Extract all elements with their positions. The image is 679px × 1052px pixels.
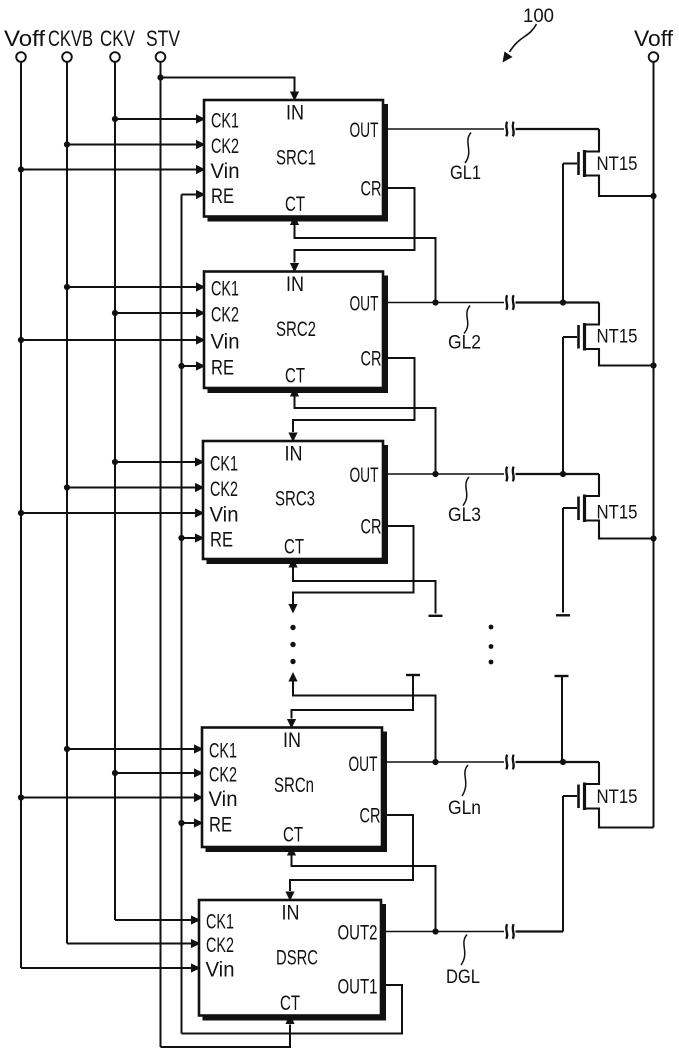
wire RE input of SRC1 — [182, 194, 197, 196]
wire Vin input of SRC2 — [21, 339, 196, 341]
wire CR of SRC1 to IN of SRC2 — [295, 188, 415, 263]
wire CK1 input of SRC1 — [115, 118, 196, 120]
junction NT15 source on Voff rail — [650, 193, 656, 199]
wire GL3 (gate line) from OUT — [384, 473, 504, 475]
svg-text:SRCn: SRCn — [274, 774, 314, 797]
transistor NT15 Q4 channel bar — [583, 783, 586, 811]
junction GL2 tap — [432, 299, 438, 305]
svg-text:CKVB: CKVB — [48, 26, 93, 51]
wire IN of SRCn from CR of omitted stage — [406, 674, 420, 676]
svg-text:CK1: CK1 — [211, 110, 239, 133]
wire CK2 input of SRC2 — [115, 312, 196, 314]
transistor NT15 Q3 drain lead — [584, 474, 599, 496]
junction GL3 and NT15 gate — [560, 471, 566, 477]
svg-text:CR: CR — [361, 516, 382, 539]
junction NT15 source on Voff rail — [650, 535, 656, 541]
svg-text:CK1: CK1 — [209, 740, 237, 763]
transistor NT15 Q3 gate lead — [563, 507, 577, 509]
wire GL2 after break to NT15 drain — [516, 301, 600, 303]
wire CT of SRCn from DGL tap — [292, 855, 436, 932]
svg-text:SRC2: SRC2 — [276, 318, 316, 341]
svg-text:OUT: OUT — [350, 119, 379, 142]
svg-text:CK1: CK1 — [211, 278, 239, 301]
wire gate of NT15 Q4 to DGL — [562, 796, 564, 932]
terminal circle CKVB — [62, 52, 72, 62]
lead squiggle for label GLn — [462, 765, 468, 796]
break mark on GL1 — [506, 122, 507, 137]
svg-text:Vin: Vin — [209, 788, 238, 811]
wire RE input of SRC2 — [182, 365, 197, 367]
wire GLn (gate line) from OUT — [383, 761, 504, 763]
stage block SRC3 box — [207, 445, 389, 564]
bus wire STV vertical — [160, 62, 162, 1047]
break mark on DGL — [506, 924, 507, 939]
junction GL2 and NT15 gate — [560, 299, 566, 305]
wire Vin input of SRC3 — [21, 512, 195, 514]
svg-text:IN: IN — [286, 102, 304, 125]
svg-text:Vin: Vin — [211, 160, 240, 183]
lead squiggle for label GL1 — [465, 133, 471, 164]
svg-text:CK2: CK2 — [206, 934, 234, 957]
junction Vin of SRC2 on bus — [18, 337, 24, 343]
terminal circle Voff right — [649, 52, 659, 62]
wire RE input of SRCn — [182, 822, 195, 824]
wire CT of SRC3 from omitted stage output — [293, 567, 436, 614]
junction CK2 of SRCn on bus — [112, 770, 118, 776]
bus wire CKVB vertical — [66, 62, 68, 944]
wire CK1 input of DSRC — [115, 919, 191, 921]
junction Vin of SRCn on bus — [18, 794, 24, 800]
wire OUT1 of DSRC to RE chain — [182, 985, 403, 1034]
transistor NT15 Q4 gate lead — [563, 795, 577, 797]
svg-text:NT15: NT15 — [597, 502, 638, 524]
transistor NT15 Q3 gate bar — [577, 497, 580, 521]
junction DGL tap — [432, 928, 438, 934]
svg-text:CR: CR — [361, 178, 382, 201]
transistor NT15 Q2 source lead — [584, 349, 654, 366]
svg-text:NT15: NT15 — [597, 153, 638, 175]
transistor NT15 Q3 channel bar — [583, 495, 586, 523]
svg-text:NT15: NT15 — [597, 326, 638, 348]
wire CT of omitted stage from GLn tap — [293, 681, 436, 762]
wire GL3 after break to NT15 drain — [516, 473, 600, 475]
wire CK1 input of SRCn — [67, 748, 194, 750]
transistor NT15 Q1 channel bar — [583, 150, 586, 177]
svg-text:OUT: OUT — [350, 293, 379, 316]
svg-text:GL2: GL2 — [448, 332, 481, 354]
svg-text:Vin: Vin — [211, 331, 240, 354]
break mark on GL2 — [506, 295, 507, 310]
junction GLn and NT15 gate — [560, 759, 566, 765]
junction CK1 of SRCn on bus — [64, 746, 70, 752]
transistor NT15 Q1 drain lead — [584, 129, 599, 152]
wire DGL after break to NT15 gate chain — [516, 930, 564, 932]
svg-text:SRC3: SRC3 — [275, 488, 315, 511]
svg-text:CT: CT — [283, 824, 303, 847]
bus wire Voff vertical — [20, 62, 22, 968]
svg-text:OUT: OUT — [350, 464, 379, 487]
svg-text:RE: RE — [210, 529, 233, 552]
svg-text:CR: CR — [361, 348, 382, 371]
svg-text:SRC1: SRC1 — [276, 147, 316, 170]
wire STV to IN of SRC1 — [161, 78, 295, 93]
svg-text:CKV: CKV — [100, 26, 135, 51]
wire gate of NT15 Q1 to next gate line — [562, 164, 564, 303]
wire CK1 input of SRC3 — [115, 461, 195, 463]
svg-text:CT: CT — [284, 536, 304, 559]
stage block DSRC box — [203, 904, 387, 1021]
svg-text:STV: STV — [146, 26, 180, 51]
svg-text:IN: IN — [282, 902, 300, 925]
svg-text:OUT: OUT — [349, 753, 378, 776]
junction GL3 tap — [432, 471, 438, 477]
wire CK1 input of SRC2 — [67, 286, 196, 288]
wire CK2 input of SRCn — [115, 772, 194, 774]
lead squiggle for label GL3 — [463, 477, 469, 506]
lead squiggle for label GL2 — [464, 306, 470, 334]
continuation bar on gate chain (upper) — [556, 614, 570, 616]
svg-text:IN: IN — [285, 443, 303, 466]
svg-text:GL3: GL3 — [448, 504, 481, 526]
break mark on GLn — [506, 755, 507, 770]
lead line arrow for 100 — [510, 24, 537, 52]
wire CR of SRCn to IN of DSRC — [290, 815, 413, 891]
transistor NT15 Q1 gate bar — [577, 152, 580, 175]
wire Vin input of SRCn — [21, 797, 194, 799]
junction RE of SRC2 on bus — [178, 363, 184, 369]
svg-text:GLn: GLn — [448, 797, 481, 819]
transistor NT15 Q2 drain lead — [584, 303, 599, 325]
ellipsis dots (omitted stages) — [290, 625, 295, 630]
terminal circle STV — [156, 52, 166, 62]
stage block SRC2 box — [208, 276, 389, 394]
wire gate of NT15 Q3 toward omitted gate line — [562, 508, 564, 613]
svg-text:RE: RE — [211, 185, 234, 208]
ellipsis dots (omitted transistors) — [489, 625, 494, 630]
junction CK1 of SRC1 on bus — [112, 116, 118, 122]
stage block SRC1 box — [208, 104, 389, 222]
transistor NT15 Q2 gate bar — [577, 325, 580, 349]
transistor NT15 Q4 drain lead — [584, 762, 599, 784]
wire CT of SRC2 from GL3 tap — [295, 396, 436, 474]
junction STV branch — [157, 74, 163, 80]
junction GLn tap — [432, 759, 438, 765]
svg-text:Vin: Vin — [210, 504, 239, 527]
wire GL2 (gate line) from OUT — [384, 302, 504, 304]
wire STV to CT of DSRC — [161, 1025, 291, 1048]
bus wire Voff right vertical — [653, 62, 655, 828]
transistor NT15 Q2 channel bar — [583, 323, 586, 351]
transistor NT15 Q2 gate lead — [563, 336, 577, 338]
junction NT15 source on Voff rail — [650, 362, 656, 368]
wire CR of SRC3 toward omitted stage — [293, 526, 414, 604]
stage block SRCn box — [206, 732, 388, 853]
svg-text:DGL: DGL — [446, 966, 480, 988]
svg-text:OUT1: OUT1 — [338, 976, 378, 999]
junction CK2 of SRC1 on bus — [64, 141, 70, 147]
wire CK2 input of DSRC — [67, 943, 191, 945]
break mark on GL3 — [506, 467, 507, 482]
transistor NT15 Q4 source lead — [584, 809, 654, 828]
wire GL1 after break to NT15 drain — [516, 128, 600, 130]
svg-text:Voff: Voff — [634, 26, 674, 51]
transistor NT15 Q1 gate lead — [563, 163, 577, 165]
junction CK1 of SRC2 on bus — [64, 284, 70, 290]
junction Vin of SRC3 on bus — [18, 510, 24, 516]
junction RE of SRC3 on bus — [178, 535, 184, 541]
wire gate of NT15 Q2 to next gate line — [562, 337, 564, 474]
continuation bar CT feed of SRC3 — [429, 615, 443, 617]
terminal circle CKV — [110, 52, 120, 62]
junction RE of SRCn on bus — [178, 820, 184, 826]
svg-text:CK1: CK1 — [206, 911, 234, 934]
transistor NT15 Q4 gate bar — [577, 785, 580, 809]
svg-text:CK2: CK2 — [210, 478, 238, 501]
transistor NT15 Q3 source lead — [584, 521, 654, 539]
junction CK1 of SRC3 on bus — [112, 459, 118, 465]
svg-text:CK1: CK1 — [210, 453, 238, 476]
wire Vin input of SRC1 — [21, 169, 196, 171]
wire Vin input of DSRC — [21, 967, 191, 969]
continuation bar on gate chain (lower) — [555, 675, 569, 677]
svg-text:Vin: Vin — [206, 959, 235, 982]
svg-text:RE: RE — [209, 814, 232, 837]
svg-text:RE: RE — [211, 357, 234, 380]
wire CR of SRC2 to IN of SRC3 — [293, 358, 415, 432]
svg-text:CT: CT — [280, 992, 300, 1015]
junction CK2 of SRC2 on bus — [112, 310, 118, 316]
svg-text:OUT2: OUT2 — [338, 922, 378, 945]
svg-text:CR: CR — [360, 805, 381, 828]
svg-text:GL1: GL1 — [450, 162, 481, 184]
svg-text:NT15: NT15 — [597, 786, 638, 808]
wire RE input of SRC3 — [182, 537, 196, 539]
svg-text:DSRC: DSRC — [276, 947, 318, 970]
wire GLn after break to NT15 drain — [516, 761, 600, 763]
svg-text:CK2: CK2 — [211, 304, 239, 327]
terminal circle Voff left — [16, 52, 26, 62]
wire gate chain resuming to GLn — [561, 676, 563, 762]
svg-text:Voff: Voff — [4, 26, 46, 51]
junction Vin of SRC1 on bus — [18, 166, 24, 172]
svg-text:CK2: CK2 — [209, 764, 237, 787]
svg-text:CK2: CK2 — [211, 135, 239, 158]
wire GL1 (gate line) from OUT — [384, 128, 504, 130]
wire CK2 input of SRC1 — [67, 144, 196, 146]
wire DGL (gate line) from OUT — [382, 931, 504, 933]
transistor NT15 Q1 source lead — [584, 176, 654, 197]
svg-text:IN: IN — [286, 273, 304, 296]
wire CK2 input of SRC3 — [67, 487, 195, 489]
svg-text:CT: CT — [285, 193, 305, 216]
svg-text:IN: IN — [283, 729, 301, 752]
bus wire CKV vertical — [114, 62, 116, 920]
svg-text:CT: CT — [285, 365, 305, 388]
lead squiggle for label DGL — [461, 935, 467, 966]
bus wire RE chain vertical (OUT1 feedback) — [181, 195, 183, 1034]
svg-text:100: 100 — [523, 5, 554, 27]
wire CT of SRC1 from GL2 tap — [295, 225, 436, 303]
junction CK2 of SRC3 on bus — [64, 484, 70, 490]
